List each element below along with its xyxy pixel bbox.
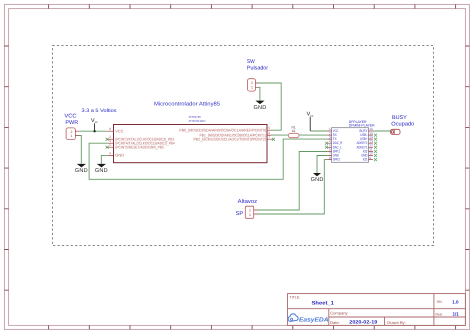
ground GND (PWR) — [75, 164, 88, 174]
left pin numbers — [329, 127, 331, 160]
svg-text:1: 1 — [249, 213, 251, 217]
junction on VCC wire — [93, 130, 95, 132]
svg-text:EasyEDA: EasyEDA — [299, 316, 329, 323]
svg-text:GND: GND — [95, 168, 108, 174]
left pin names — [333, 129, 343, 162]
right pin stubs — [369, 131, 373, 160]
svg-text:GND: GND — [75, 168, 88, 174]
svg-text:Sheet_1: Sheet_1 — [312, 301, 335, 307]
svg-text:Altavoz: Altavoz — [238, 199, 258, 205]
power flag Vcc (left) — [91, 118, 98, 131]
svg-text:5: 5 — [268, 126, 270, 130]
svg-text:SP: SP — [236, 211, 244, 217]
right pin numbers — [369, 127, 373, 160]
svg-text:3.3 a 5 Voltios: 3.3 a 5 Voltios — [82, 108, 118, 114]
wire Vcc to U2 VCC — [310, 130, 327, 132]
svg-text:ATTINY85-20PU: ATTINY85-20PU — [189, 119, 206, 123]
wire U2 SPK2 to SP pin1 — [258, 160, 327, 214]
svg-text:8: 8 — [329, 156, 331, 160]
svg-text:GND: GND — [254, 105, 267, 111]
svg-text:1/1: 1/1 — [453, 312, 460, 317]
power flag Vcc (U2) — [307, 112, 314, 131]
svg-text:Ocupado: Ocupado — [391, 122, 414, 128]
svg-text:(PCINT5/RESET/ADC0/dW)_PB5: (PCINT5/RESET/ADC0/dW)_PB5 — [115, 145, 164, 150]
svg-text:SW: SW — [247, 59, 255, 65]
microcontroller U1 Attiny85 — [106, 101, 275, 162]
wire SW pin2 to U1 PB0 — [258, 83, 281, 130]
pin numbers — [109, 126, 270, 155]
no-connect DAC_R — [325, 142, 328, 145]
wire PWR pin2 to U1 VCC — [80, 130, 107, 132]
wire U1 GND to ground — [101, 155, 107, 163]
no-connect PB2 — [272, 138, 275, 141]
right pin names — [357, 129, 368, 162]
wire SW pin1 to GND — [258, 87, 260, 100]
svg-text:Microcontrolador Attiny85: Microcontrolador Attiny85 — [154, 101, 220, 107]
wire U2 BUSY to connector — [373, 130, 391, 132]
wire U1 PB1 to R1 to U2 RX — [271, 134, 327, 136]
svg-text:Pulsador: Pulsador — [247, 65, 268, 71]
svg-text:BUSY: BUSY — [392, 115, 407, 121]
no-connect DAC_L — [325, 146, 328, 149]
EasyEDA logo — [288, 314, 328, 324]
wire U2 SPK1 to SP pin2 — [258, 152, 327, 211]
svg-text:GND: GND — [311, 177, 324, 183]
wire U1 PB4 to U2 TX — [89, 139, 327, 179]
svg-text:VCC: VCC — [64, 114, 76, 120]
svg-text:4: 4 — [109, 151, 111, 155]
title block — [288, 294, 466, 326]
svg-text:1: 1 — [109, 143, 111, 147]
svg-text:9: 9 — [369, 156, 371, 160]
svg-text:PB2_(SCK/USCK/SCL/ADC1/T0/INT0: PB2_(SCK/USCK/SCL/ADC1/T0/INT0/PCINT2) — [194, 137, 267, 142]
left pin stubs — [107, 131, 113, 155]
svg-text:PWR: PWR — [65, 120, 78, 126]
switch connector SW Pulsador — [247, 59, 268, 91]
wire U2 GND to ground — [317, 156, 327, 173]
no-connect PB5 — [106, 146, 109, 149]
no-connect PB3 — [106, 138, 109, 141]
svg-text:VCC: VCC — [115, 129, 123, 134]
svg-text:2020-02-19: 2020-02-19 — [349, 320, 377, 325]
right pin stubs — [267, 130, 273, 139]
DFPlayer module U2 — [325, 120, 377, 162]
left pin stubs — [327, 131, 331, 160]
svg-text:TITLE:: TITLE: — [290, 296, 301, 300]
svg-text:Date:: Date: — [330, 320, 340, 325]
pin names — [115, 128, 266, 158]
svg-text:1: 1 — [71, 134, 73, 138]
svg-text:REV:: REV: — [437, 300, 443, 304]
svg-text:7: 7 — [268, 135, 270, 139]
svg-text:8: 8 — [109, 127, 111, 131]
ground GND (SW) — [254, 101, 267, 112]
svg-text:1: 1 — [251, 85, 253, 89]
svg-text:GND: GND — [115, 153, 124, 158]
svg-text:1k: 1k — [292, 129, 296, 133]
no-connect right pins — [374, 134, 377, 162]
wire PWR pin1 to GND — [79, 136, 82, 164]
resistor R1 1k — [288, 125, 299, 137]
connector P1 VCC PWR — [64, 114, 80, 140]
svg-text:SPK2: SPK2 — [333, 158, 340, 162]
svg-text:Drawn By:: Drawn By: — [387, 320, 405, 325]
svg-text:1.0: 1.0 — [452, 299, 459, 304]
ground GND (U1) — [95, 164, 108, 174]
svg-text:Sheet:: Sheet: — [435, 312, 443, 316]
svg-text:Company:: Company: — [330, 310, 348, 315]
svg-text:IO1: IO1 — [363, 158, 368, 162]
connector BUSY Ocupado — [391, 115, 415, 134]
ground GND (U2) — [311, 173, 324, 183]
speaker connector SP Altavoz — [236, 199, 258, 219]
